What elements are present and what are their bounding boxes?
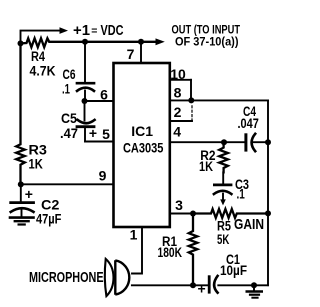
svg-text:R5: R5 [217, 218, 231, 233]
svg-text:.1: .1 [237, 187, 246, 202]
svg-text:3: 3 [175, 197, 183, 213]
svg-text:1K: 1K [199, 159, 213, 174]
svg-text:VDC: VDC [101, 23, 124, 39]
svg-text:+: + [25, 186, 33, 202]
svg-text:4: 4 [173, 124, 181, 140]
svg-text:.047: .047 [238, 116, 259, 131]
svg-text:10: 10 [170, 66, 186, 82]
svg-text:+: + [89, 125, 97, 141]
svg-text:OF 37-10(a)): OF 37-10(a)) [175, 34, 239, 48]
svg-text:47µF: 47µF [36, 212, 61, 227]
svg-text:=: = [91, 25, 97, 37]
svg-text:10µF: 10µF [220, 263, 247, 278]
svg-text:MICROPHONE: MICROPHONE [29, 270, 104, 286]
svg-text:5K: 5K [217, 232, 229, 247]
svg-text:4.7K: 4.7K [30, 64, 56, 79]
svg-text:CA3035: CA3035 [123, 140, 164, 156]
svg-text:R4: R4 [31, 49, 45, 64]
svg-text:.47: .47 [60, 126, 78, 141]
svg-text:8: 8 [174, 85, 182, 101]
svg-text:6: 6 [100, 87, 108, 103]
svg-text:R3: R3 [29, 142, 48, 157]
svg-text:+1: +1 [73, 23, 90, 39]
svg-text:1: 1 [130, 227, 138, 243]
svg-text:IC1: IC1 [131, 123, 153, 139]
svg-text:9: 9 [99, 168, 107, 184]
svg-text:7: 7 [127, 46, 135, 62]
svg-text:2: 2 [174, 104, 182, 120]
svg-text:180K: 180K [158, 245, 183, 260]
svg-text:1K: 1K [29, 157, 44, 172]
svg-text:C5: C5 [61, 111, 77, 126]
svg-text:5: 5 [102, 126, 110, 142]
svg-text:C2: C2 [41, 198, 59, 213]
svg-text:GAIN: GAIN [234, 216, 264, 233]
svg-text:+: + [198, 281, 206, 297]
svg-text:C6: C6 [63, 67, 76, 82]
svg-text:.1: .1 [62, 82, 70, 97]
